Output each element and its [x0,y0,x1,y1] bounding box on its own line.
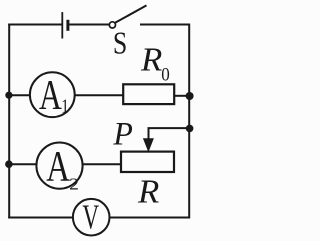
switch S arm [115,5,146,22]
svg-text:0: 0 [161,64,170,85]
voltmeter V circle [73,199,110,236]
wire row1 left [8,94,123,96]
battery long plate [61,12,63,38]
node junction dot right slider [186,125,194,133]
rheostat slider arrowhead [143,138,154,152]
wire row1 right of R0 [174,95,190,97]
wire switch to top right corner [140,24,190,26]
ammeter A1 circle [30,72,75,117]
svg-text:1: 1 [61,96,69,118]
rheostat slider wire horizontal [149,128,191,140]
svg-text:S: S [113,24,127,60]
switch S pivot circle [109,22,115,28]
svg-text:A: A [39,72,62,119]
resistor R0 body [123,84,174,104]
svg-text:A: A [46,143,70,190]
svg-text:R: R [137,173,159,210]
node junction dot left row1 [5,92,12,99]
node junction dot left row2 [5,160,13,168]
wire right vertical [188,24,190,219]
svg-text:P: P [112,116,132,152]
rheostat R body [121,152,174,172]
wire row2 left [8,163,121,165]
wire left vertical [8,24,10,219]
svg-text:V: V [82,198,99,237]
wire bottom horizontal [8,217,190,219]
battery short plate [66,20,69,31]
ammeter A2 circle [36,143,82,189]
wire top left to battery [8,24,62,26]
wire battery to switch [69,24,109,26]
svg-text:R: R [140,41,162,78]
svg-text:2: 2 [69,174,79,193]
node junction dot right row1 [186,92,194,100]
